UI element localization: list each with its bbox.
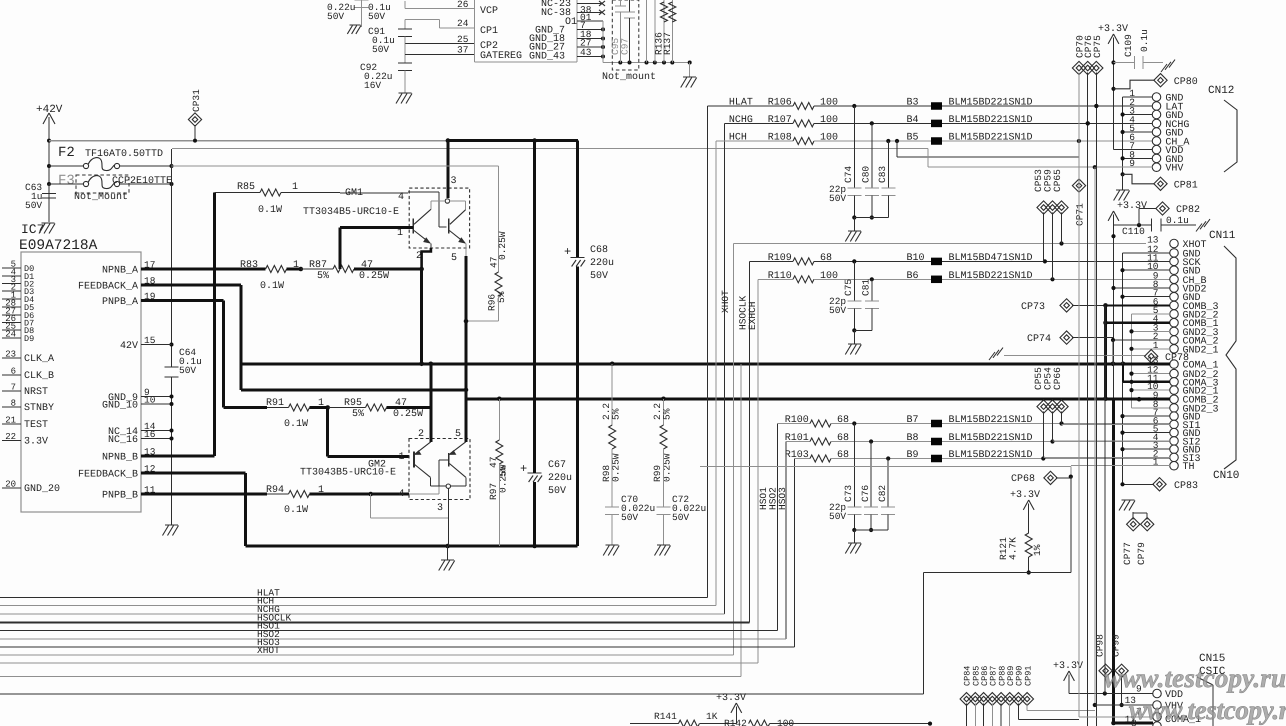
wire GM1 pin2 emitter down — [422, 248, 431, 269]
svg-text:5: 5 — [455, 429, 461, 440]
svg-text:50V: 50V — [327, 11, 344, 22]
wire — [786, 441, 810, 443]
wire COMB_3 stub — [1104, 304, 1107, 401]
svg-text:23: 23 — [5, 350, 16, 360]
pin 12 GND2_2 CN10 — [1170, 369, 1179, 378]
wire HCH — [716, 140, 793, 142]
wire COMB_2 stub (thick) — [1106, 398, 1171, 401]
capacitor C92 0.22u 16V — [398, 62, 412, 64]
capacitor 0.22u 50V (top, cut off) — [361, 0, 363, 27]
pin 9 VDD CSIC — [1153, 689, 1162, 698]
wire XHOT to CN11 — [734, 243, 1146, 245]
resistor R85 0.1W — [215, 192, 261, 194]
pin 12 GND CN11 — [1170, 249, 1179, 258]
svg-text:HSO3: HSO3 — [777, 487, 788, 510]
wire XHOT vertical — [733, 244, 735, 656]
wire GND bus to ground — [602, 21, 604, 63]
wire row — [0, 662, 758, 664]
svg-text:CP1: CP1 — [480, 26, 498, 37]
pin 7 GND CN10 — [1170, 412, 1179, 421]
svg-text:NRST: NRST — [24, 387, 48, 398]
svg-text:19: 19 — [144, 291, 156, 302]
svg-text:B8: B8 — [907, 433, 919, 444]
svg-text:CP65: CP65 — [1052, 169, 1063, 192]
wire GND vertical CN11/CN10 — [1122, 253, 1124, 484]
pin 14 NC_14 — [141, 430, 163, 432]
wire — [795, 458, 811, 460]
pin 5 GND2_2 CN11 — [1170, 310, 1179, 319]
wire SI3 stub — [1043, 456, 1170, 458]
svg-text:1: 1 — [399, 452, 405, 463]
pin 9 COMB_2 CN10 — [1170, 395, 1179, 404]
svg-text:B9: B9 — [907, 450, 919, 461]
svg-text:10: 10 — [144, 395, 156, 406]
svg-text:50V: 50V — [179, 365, 196, 376]
pin 11 PNPB_B — [141, 493, 163, 496]
svg-text:TF16AT0.50TTD: TF16AT0.50TTD — [85, 149, 163, 160]
svg-text:R100: R100 — [785, 415, 809, 426]
wire LAT down — [1095, 106, 1097, 726]
svg-text:C97: C97 — [620, 38, 631, 55]
svg-text:0.1W: 0.1W — [258, 205, 282, 216]
wire +42V bus — [49, 140, 448, 142]
svg-text:B3: B3 — [907, 98, 919, 109]
wire VHV net from 42V line — [927, 149, 929, 168]
svg-text:50V: 50V — [829, 193, 846, 204]
svg-text:5%: 5% — [662, 408, 673, 420]
svg-text:26: 26 — [457, 0, 469, 10]
svg-text:BLM15BD221SN1D: BLM15BD221SN1D — [949, 115, 1033, 126]
svg-text:4: 4 — [399, 489, 405, 500]
pin 11 COMA_1 CSIC — [1153, 722, 1162, 726]
pin 12 FEEDBACK_B — [141, 472, 163, 475]
svg-text:GND_10: GND_10 — [102, 401, 138, 412]
svg-text:3.3V: 3.3V — [24, 437, 48, 448]
svg-text:15: 15 — [144, 335, 156, 346]
svg-text:22: 22 — [5, 432, 16, 442]
svg-text:0.1u: 0.1u — [1139, 29, 1150, 52]
svg-text:B6: B6 — [907, 271, 919, 282]
svg-text:1%: 1% — [1032, 544, 1043, 556]
wire COMA_1 to CSIC — [1111, 721, 1116, 726]
svg-text:17: 17 — [144, 260, 155, 271]
wire HSO1 vertical — [777, 424, 779, 631]
svg-text:0.1u: 0.1u — [1166, 215, 1189, 226]
pin 5 GND CN10 — [1170, 428, 1179, 437]
pin 1 D4 — [2, 298, 21, 300]
svg-text:50V: 50V — [829, 511, 846, 522]
svg-text:C83: C83 — [877, 166, 888, 183]
test point CP80 — [1111, 87, 1115, 91]
svg-text:CP99: CP99 — [1111, 634, 1122, 657]
ground — [689, 63, 691, 78]
pin 6 SI1 CN10 — [1170, 420, 1179, 429]
pin 8 GND2_3 CN10 — [1170, 404, 1179, 413]
svg-text:GND_43: GND_43 — [529, 52, 565, 63]
IC7 upper block (VCP/CP1/CP2/GATEREG pins) — [474, 0, 577, 62]
svg-text:100: 100 — [820, 115, 838, 126]
wire FEEDBACK_A — [163, 284, 241, 287]
wire VCP from top cap — [404, 1, 406, 9]
wire CN12 GND pins — [1123, 96, 1153, 98]
svg-text:PNPB_B: PNPB_B — [102, 491, 138, 502]
wire HSO3 vertical — [794, 459, 796, 648]
wire — [750, 260, 794, 262]
pin 21 TEST — [2, 423, 21, 425]
wire VDD feed vertical — [1104, 305, 1106, 693]
pin 1 TH CN10 — [1170, 461, 1179, 470]
pin 27 D6 — [2, 314, 21, 316]
svg-text:5%: 5% — [317, 271, 329, 282]
svg-text:68: 68 — [837, 415, 849, 426]
svg-text:BLM15BD221SN1D: BLM15BD221SN1D — [949, 450, 1033, 461]
wire CP2 — [404, 37, 406, 44]
svg-text:4: 4 — [398, 192, 404, 203]
svg-text:CP83: CP83 — [1174, 481, 1198, 492]
svg-text:HCH: HCH — [729, 133, 747, 144]
svg-text:C109: C109 — [1123, 34, 1134, 57]
wire mystery vertical — [740, 364, 742, 677]
pin 2 COMA_2 CN11 — [1170, 336, 1179, 345]
wire base GM1 pin1 — [340, 226, 413, 229]
test point CP82 — [1138, 209, 1140, 226]
svg-text:8: 8 — [11, 399, 16, 409]
ground — [447, 546, 449, 560]
test point CP81 — [1123, 174, 1155, 184]
svg-text:100: 100 — [820, 133, 838, 144]
pin 4 SI2 CN10 — [1170, 437, 1179, 446]
wire R96 to emitter rail — [466, 320, 499, 322]
wire net COMA (thick) — [241, 362, 1167, 365]
svg-text:NPNB_A: NPNB_A — [102, 266, 138, 277]
svg-text:CP66: CP66 — [1052, 367, 1063, 390]
capacitor C80 22p 50V — [871, 123, 873, 188]
pin 1 GND CN12 — [1152, 93, 1161, 102]
wire VDD2 stub — [1114, 287, 1171, 289]
wire +3.3V rail — [1113, 44, 1115, 150]
svg-text:www.testcopy.ru: www.testcopy.ru — [1104, 663, 1286, 693]
pin 8 GND CN12 — [1152, 154, 1161, 163]
svg-text:42V: 42V — [120, 341, 138, 352]
svg-text:CP31: CP31 — [191, 89, 202, 112]
svg-text:R83: R83 — [240, 260, 258, 271]
wire R94 to QM2 pin4 — [371, 493, 409, 496]
capacitor C95 — [619, 0, 621, 6]
wire to GM1 pin4 — [281, 192, 340, 194]
svg-text:0.25W: 0.25W — [393, 409, 423, 420]
svg-text:EXHCH: EXHCH — [747, 301, 758, 330]
svg-text:25: 25 — [457, 34, 469, 45]
svg-text:5%: 5% — [352, 409, 364, 420]
capacitor C73 22p 50V — [853, 424, 855, 508]
wire HSOCLK vertical — [749, 261, 751, 622]
svg-text:50V: 50V — [829, 305, 846, 316]
svg-text:CP91: CP91 — [1023, 666, 1033, 686]
svg-text:3: 3 — [437, 503, 443, 514]
svg-text:50V: 50V — [548, 486, 566, 497]
wire HLAT — [708, 105, 794, 107]
ground — [165, 524, 178, 526]
wire NCHG — [725, 122, 794, 124]
svg-text:B10: B10 — [907, 253, 925, 264]
svg-text:50V: 50V — [368, 11, 385, 22]
pin 11 SCK CN11 — [1170, 257, 1179, 266]
wire NCHG vertical — [724, 123, 726, 614]
pin 9 CH_B CN11 — [1170, 275, 1179, 284]
wire caps common to ground — [854, 217, 888, 219]
pin 22 3.3V — [2, 440, 21, 442]
wire R95 up to COMA net — [429, 364, 432, 408]
svg-text:1: 1 — [292, 182, 298, 193]
svg-text:PNPB_A: PNPB_A — [102, 297, 138, 308]
svg-text:18: 18 — [144, 276, 156, 287]
svg-text:4.7K: 4.7K — [1008, 537, 1019, 560]
svg-text:C67: C67 — [548, 460, 566, 471]
wire emitter-B rail (thick) — [246, 545, 578, 548]
svg-text:+3.3V: +3.3V — [1117, 201, 1147, 212]
svg-text:12: 12 — [144, 464, 156, 475]
capacitor C83 22p 50V — [887, 141, 889, 188]
test point CP78 + ground wire — [989, 352, 995, 360]
svg-text:D9: D9 — [24, 334, 34, 344]
svg-text:www.testcopy.ru: www.testcopy.ru — [1129, 695, 1286, 725]
svg-text:37: 37 — [457, 45, 468, 56]
svg-text:F3: F3 — [58, 173, 75, 189]
wire +3.3V down (long vertical) — [1113, 225, 1115, 399]
pin 13 NPNB_B — [141, 455, 163, 458]
svg-text:11: 11 — [144, 485, 156, 496]
wire NCHG long vertical — [1087, 73, 1089, 124]
wire QM2 pin1 — [326, 408, 329, 457]
pin 4 COMB_1 CN11 — [1170, 318, 1179, 327]
svg-text:16: 16 — [144, 429, 156, 440]
wire GM1 pin3 from +42V bus — [448, 139, 578, 142]
svg-text:21: 21 — [5, 416, 16, 426]
pin 2 D3 — [2, 290, 21, 292]
svg-text:68: 68 — [837, 433, 849, 444]
wire B5 branch to CSIC CH — [896, 141, 898, 157]
ground — [1122, 499, 1135, 501]
wire fuse output down (42V rail) — [171, 149, 173, 367]
svg-text:1K: 1K — [706, 711, 718, 722]
test point CP71 — [1072, 179, 1085, 192]
resistor R98 2.2 5% 0.25W — [611, 364, 613, 425]
pin 7 NRST — [2, 390, 21, 392]
svg-text:24: 24 — [5, 330, 16, 340]
transistor GM1 TT3034B5-URC10-E — [303, 176, 470, 264]
svg-text:50V: 50V — [590, 271, 608, 282]
svg-text:6: 6 — [11, 367, 16, 377]
svg-text:0.1W: 0.1W — [284, 419, 308, 430]
svg-text:BLM15BD221SN1D: BLM15BD221SN1D — [949, 98, 1033, 109]
wire — [778, 423, 811, 425]
svg-text:C81: C81 — [861, 279, 872, 296]
wire 42V to R96 — [172, 165, 499, 167]
wire FEEDBACK_B — [163, 472, 246, 475]
wire QM2 pin3 down — [447, 488, 449, 546]
svg-text:CP73: CP73 — [1021, 302, 1045, 313]
svg-text:R137: R137 — [662, 32, 673, 55]
svg-text:B4: B4 — [907, 115, 919, 126]
svg-text:68: 68 — [837, 450, 849, 461]
svg-text:20: 20 — [5, 480, 16, 490]
ground under C92 — [404, 71, 406, 94]
pin 23 CLK_A — [2, 357, 21, 359]
pin 28 D5 — [2, 306, 21, 308]
resistor R141 1K — [630, 723, 678, 725]
svg-text:+: + — [520, 462, 527, 476]
pin 10 GND CN11 — [1170, 266, 1179, 275]
pin 6 CH_A CN12 — [1152, 137, 1161, 146]
svg-text:TEST: TEST — [24, 420, 48, 431]
svg-text:B5: B5 — [907, 133, 919, 144]
watermark www.testcopy.ru — [1104, 663, 1286, 725]
svg-text:100: 100 — [777, 718, 794, 726]
pin 7 CSIC — [1153, 713, 1162, 722]
wire to QM2 pin3 (gray) — [370, 494, 372, 518]
ground (chassis) — [1161, 64, 1167, 72]
test point CP79 — [1146, 513, 1148, 520]
svg-text:R107: R107 — [768, 115, 792, 126]
pin 1 GND2_1 CN11 — [1170, 345, 1179, 354]
capacitor C76 22p 50V — [870, 442, 872, 508]
svg-text:GATEREG: GATEREG — [480, 51, 522, 62]
wire row — [0, 693, 924, 695]
capacitor C81 22p 50V — [871, 279, 873, 301]
pin 2 LAT CN12 — [1152, 102, 1161, 111]
resistor R137 — [671, 0, 673, 63]
svg-text:C68: C68 — [590, 245, 608, 256]
wire COMA_2 stub — [1113, 339, 1170, 341]
capacitor C70 0.022u 50V — [605, 506, 619, 508]
wire GM1 pin5 emitter down — [465, 248, 467, 256]
svg-text:220u: 220u — [590, 258, 614, 269]
pin 7 GND CN11 — [1170, 292, 1179, 301]
wire CH_A long vertical — [1078, 73, 1080, 141]
svg-text:BLM15BD221SN1D: BLM15BD221SN1D — [949, 415, 1033, 426]
svg-text:R103: R103 — [785, 450, 809, 461]
svg-text:CP75: CP75 — [1092, 35, 1103, 58]
wire HSO2 vertical — [785, 442, 787, 640]
wire QM2 pin2 top — [429, 408, 432, 442]
svg-text:CP80: CP80 — [1174, 77, 1198, 88]
svg-text:STNBY: STNBY — [24, 403, 54, 414]
svg-text:BLM15BD221SN1D: BLM15BD221SN1D — [949, 133, 1033, 144]
Not_mount dashed box (C95,C97) — [612, 0, 639, 70]
svg-text:NPNB_B: NPNB_B — [102, 453, 138, 464]
pin 16 NC_16 — [141, 438, 163, 440]
node — [310, 493, 371, 496]
pin 4 NCHG CN12 — [1152, 119, 1161, 128]
svg-text:16V: 16V — [364, 80, 381, 91]
svg-text:220u: 220u — [548, 473, 572, 484]
wire — [758, 278, 793, 280]
wire COMA_3 stub — [1122, 364, 1124, 382]
svg-text:R141: R141 — [654, 711, 677, 722]
ground — [1116, 189, 1129, 191]
pin 19 PNPB_A — [141, 299, 163, 302]
node +42V bus junction — [47, 139, 51, 143]
pin 8 VDD2 CN11 — [1170, 284, 1179, 293]
svg-text:50V: 50V — [672, 512, 689, 523]
wire VHV down to CSIC — [1094, 167, 1096, 705]
svg-text:C110: C110 — [1122, 226, 1145, 237]
svg-text:CLK_A: CLK_A — [24, 354, 54, 365]
svg-text:2: 2 — [418, 429, 424, 440]
svg-text:CP77: CP77 — [1122, 542, 1133, 565]
ground — [349, 24, 360, 26]
wire GATEREG — [404, 44, 406, 63]
svg-text:R101: R101 — [785, 433, 809, 444]
svg-text:GM1: GM1 — [345, 188, 363, 199]
wire TH from left — [700, 465, 1071, 467]
capacitor C97 — [629, 0, 631, 12]
wire HLAT vertical — [707, 106, 709, 598]
svg-text:24: 24 — [457, 18, 469, 29]
svg-text:R110: R110 — [768, 271, 792, 282]
test point CP77 — [1132, 512, 1134, 520]
svg-text:CP74: CP74 — [1027, 334, 1051, 345]
svg-text:C73: C73 — [843, 485, 854, 502]
wire VDD pin7 from +3.3V — [1114, 149, 1153, 151]
svg-text:C75: C75 — [843, 279, 854, 296]
wire LAT long vertical — [1095, 73, 1097, 106]
pin 11 COMA_3 CN10 — [1170, 378, 1179, 387]
pin 3 GND2_3 CN11 — [1170, 327, 1179, 336]
svg-text:50V: 50V — [621, 512, 638, 523]
svg-text:+3.3V: +3.3V — [1098, 24, 1128, 35]
capacitor C68 220u 50V — [576, 141, 579, 257]
svg-text:0.1W: 0.1W — [260, 281, 284, 292]
svg-text:B7: B7 — [907, 415, 919, 426]
svg-text:68: 68 — [820, 253, 832, 264]
capacitor C82 22p 50V — [887, 459, 889, 508]
svg-text:NC_16: NC_16 — [108, 435, 138, 446]
resistor R136 — [663, 0, 665, 63]
wire NPNB_B up to R85 — [213, 193, 216, 457]
pin 26 D7 — [2, 322, 21, 324]
svg-text:C82: C82 — [877, 485, 888, 502]
svg-text:R85: R85 — [237, 182, 255, 193]
wire COMA_1 stub (thick) — [1123, 363, 1170, 366]
pin 7 VDD CN12 — [1152, 145, 1161, 154]
pin 24 D9 — [2, 337, 21, 339]
bracket CN11/CN10 — [1224, 246, 1236, 469]
svg-text:CN11: CN11 — [1209, 230, 1236, 242]
pin 9 VHV CN12 — [1152, 163, 1161, 172]
wire QM2 pin5 top — [464, 399, 467, 442]
pin 17 NPNB_A — [141, 268, 163, 271]
node — [310, 406, 328, 409]
pin 15 42V — [141, 344, 163, 346]
svg-text:50V: 50V — [372, 44, 389, 55]
svg-text:XHOT: XHOT — [720, 290, 731, 313]
wire PNPB_B to R94 — [163, 493, 268, 496]
svg-text:R108: R108 — [768, 133, 792, 144]
pin 13 VHV CSIC — [1153, 701, 1162, 710]
pin 6 COMB_3 CN11 — [1170, 301, 1179, 310]
svg-text:HLAT: HLAT — [729, 98, 753, 109]
pin 3 GND CN10 — [1170, 445, 1179, 454]
wire PNPB_A to R91 — [163, 299, 224, 302]
pin 6 CLK_B — [2, 374, 21, 376]
pin 3 D2 — [2, 283, 21, 285]
pin 13 XHOT CN11 — [1170, 239, 1179, 248]
svg-text:CLK_B: CLK_B — [24, 371, 54, 382]
svg-text:5%: 5% — [611, 408, 622, 420]
test point CP83 — [1123, 483, 1155, 485]
pin 18 FEEDBACK_A — [141, 284, 163, 287]
